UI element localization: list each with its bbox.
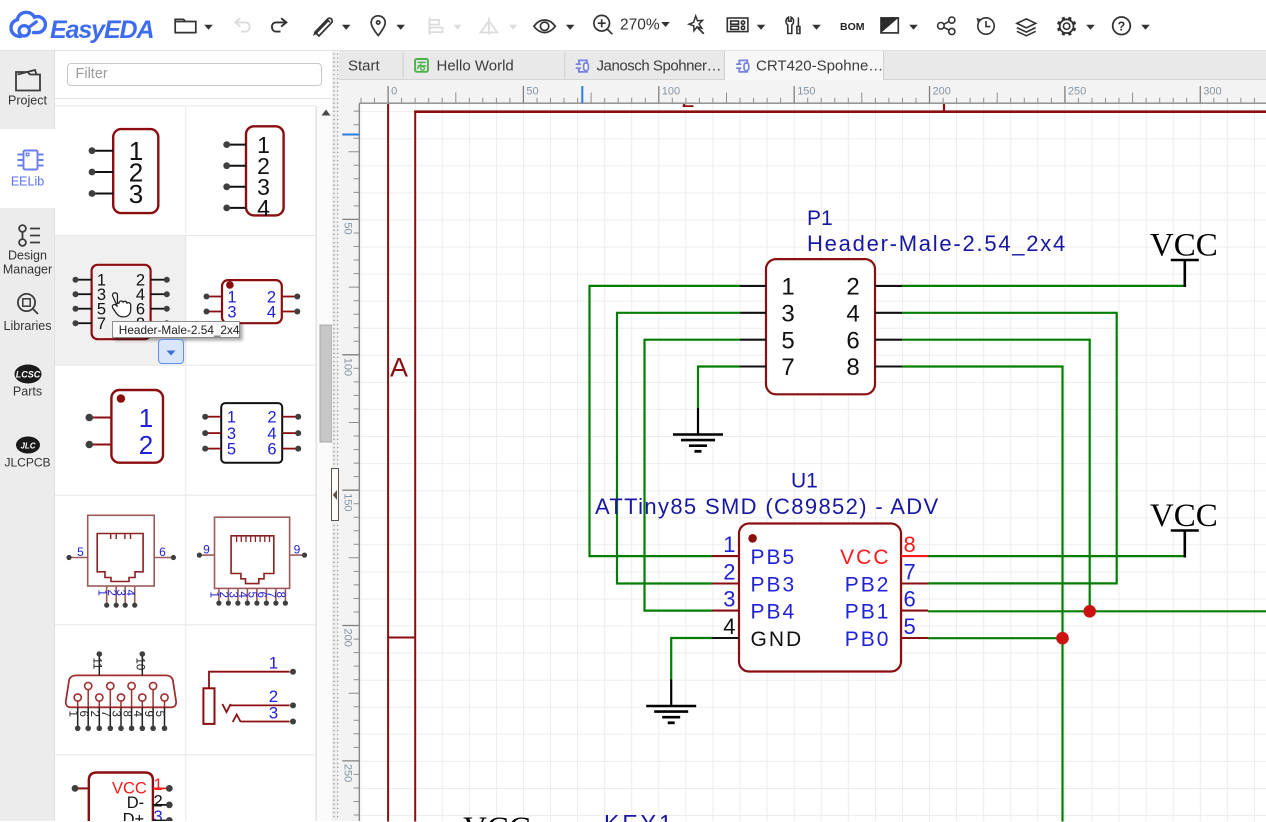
wire net PB5: P1 pin1 to U1 pin1 xyxy=(590,285,741,555)
svg-text:BOM: BOM xyxy=(840,21,865,33)
svg-text:4: 4 xyxy=(257,195,270,221)
svg-text:9: 9 xyxy=(203,543,210,557)
wire U1 pin8 to VCC xyxy=(928,554,1185,556)
U1 pin 3 (PB4) xyxy=(712,609,739,611)
frame column divider tick xyxy=(943,104,945,112)
toolbar redo xyxy=(272,18,287,31)
svg-text:Janosch Spohner…: Janosch Spohner… xyxy=(596,58,721,75)
part symbol: 2x4 header (hovered) xyxy=(73,265,170,339)
toolbar tools button xyxy=(786,17,800,33)
part symbol: USB connector (clipped) xyxy=(72,773,173,822)
panel resize gutter xyxy=(332,51,339,821)
svg-text:250: 250 xyxy=(1068,86,1086,98)
svg-text:7: 7 xyxy=(99,711,111,717)
part symbol: audio jack xyxy=(203,654,296,725)
panel scrollbar xyxy=(316,106,332,821)
svg-text:50: 50 xyxy=(342,222,354,234)
toolbar settings/gear button xyxy=(1058,17,1076,35)
ground GND1 (P1 pin7) xyxy=(673,408,723,451)
svg-text:200: 200 xyxy=(933,86,951,98)
svg-text:270%: 270% xyxy=(620,17,660,34)
P1 pin 4 xyxy=(875,311,902,313)
toolbar undo (disabled) xyxy=(235,18,249,31)
ground GND2 (U1 pin4) xyxy=(646,679,696,722)
panel collapse handle xyxy=(331,468,338,521)
toolbar flip button (disabled) xyxy=(481,18,498,35)
svg-text:2: 2 xyxy=(88,711,100,717)
part symbol: 2-pin header xyxy=(86,390,164,463)
sheet frame inner left border xyxy=(414,110,416,821)
tab Janosch Spohner (sch icon) xyxy=(575,60,588,72)
canvas background xyxy=(360,104,1266,822)
svg-text:50: 50 xyxy=(526,86,538,98)
junction dot net PB0 xyxy=(1056,631,1069,644)
sidebar Project item xyxy=(16,70,40,91)
part symbol: 2x2 header xyxy=(204,280,301,323)
svg-text:4: 4 xyxy=(267,303,276,321)
svg-text:3: 3 xyxy=(269,704,278,723)
U1 pin 7 (PB2) xyxy=(901,582,928,584)
svg-text:LCSC: LCSC xyxy=(16,370,41,380)
connector P1 Header-Male-2.54_2x4 xyxy=(740,207,1067,394)
wire net PB2: P1 pin4 to U1 pin7 xyxy=(902,312,1117,583)
svg-text:6: 6 xyxy=(159,545,166,559)
svg-text:4: 4 xyxy=(131,711,143,718)
sidebar Libraries item xyxy=(18,294,38,314)
ruler background xyxy=(339,80,1266,104)
svg-text:5: 5 xyxy=(77,545,84,559)
toolbar history button xyxy=(978,18,995,34)
EasyEDA logo xyxy=(11,12,154,44)
part dropdown button xyxy=(158,339,184,364)
svg-text:JLC: JLC xyxy=(20,442,35,451)
hovered cell background xyxy=(55,236,186,366)
power symbol VCC2 xyxy=(1150,498,1218,558)
svg-text:JLCPCB: JLCPCB xyxy=(4,456,50,470)
svg-text:1: 1 xyxy=(154,776,163,794)
svg-text:EasyEDA: EasyEDA xyxy=(50,16,154,44)
part symbol: 3-pin header xyxy=(89,129,159,213)
P1 pin 7 xyxy=(740,365,766,367)
wire P1 pin2 to VCC xyxy=(902,284,1185,286)
left sidebar xyxy=(0,51,55,821)
U1 pin 8 (VCC) xyxy=(901,555,928,557)
svg-text:9: 9 xyxy=(294,543,301,557)
toolbar placement/pin button xyxy=(371,16,385,36)
U1 pin 4 (GND) xyxy=(712,636,739,638)
toolbar view/eye button xyxy=(534,20,555,33)
svg-text:CRT420-Spohne…: CRT420-Spohne… xyxy=(756,58,883,75)
svg-text:3: 3 xyxy=(154,808,163,821)
sidebar EELib active item background xyxy=(0,129,55,208)
svg-text:7: 7 xyxy=(97,315,106,333)
svg-text:250: 250 xyxy=(342,764,354,782)
P1 pin 3 xyxy=(740,311,766,313)
sidebar JLCPCB item xyxy=(16,437,40,454)
svg-text:1: 1 xyxy=(139,403,153,433)
svg-text:Hello World: Hello World xyxy=(436,58,513,75)
wire net PB0: U1 pin5 to junction xyxy=(928,637,1063,639)
svg-text:3: 3 xyxy=(129,179,143,209)
svg-text:10: 10 xyxy=(133,658,145,671)
svg-text:150: 150 xyxy=(342,493,354,511)
IC U1 ATTiny85 xyxy=(595,469,940,671)
part symbol: 4-pin header xyxy=(223,126,283,221)
U1 pin 5 (PB0) xyxy=(901,636,928,638)
P1 pin 5 xyxy=(740,338,766,340)
svg-text:6: 6 xyxy=(267,440,276,458)
U1 pin 1 (PB5) xyxy=(712,555,739,557)
svg-text:4: 4 xyxy=(123,590,135,597)
svg-text:150: 150 xyxy=(797,86,815,98)
svg-text:Start: Start xyxy=(348,58,381,75)
svg-text:Parts: Parts xyxy=(13,385,42,399)
toolbar panel-settings button xyxy=(727,18,748,32)
toolbar help button xyxy=(1113,17,1131,35)
wire P1 pin7 to ground xyxy=(698,366,740,408)
svg-text:1: 1 xyxy=(269,654,278,673)
svg-text:1: 1 xyxy=(227,409,236,427)
tooltip Header-Male-2.54_2x4 xyxy=(112,321,241,339)
svg-text:300: 300 xyxy=(1203,86,1221,98)
U1 pin 6 (PB1) xyxy=(901,609,928,611)
ruler baselines xyxy=(359,103,1266,821)
sheet frame inner top border xyxy=(414,110,1266,113)
tab Hello World (green icon) xyxy=(415,59,428,72)
toolbar zoom button xyxy=(594,15,612,34)
sidebar Design Manager item xyxy=(19,225,40,246)
svg-text:1: 1 xyxy=(66,711,78,717)
svg-text:5: 5 xyxy=(227,440,236,458)
document tab bar xyxy=(339,51,1266,80)
svg-text:EELib: EELib xyxy=(11,175,44,189)
parts grid cell borders xyxy=(55,106,316,821)
part symbol: DB9 connector xyxy=(66,651,176,731)
toolbar align button (disabled) xyxy=(430,18,443,35)
svg-text:2: 2 xyxy=(267,409,276,427)
svg-text:2: 2 xyxy=(139,430,153,460)
parts library panel xyxy=(55,51,332,821)
svg-text:0: 0 xyxy=(391,86,397,98)
toolbar share button xyxy=(938,17,955,35)
wire net PB1: P1 pin6 down to junction xyxy=(902,339,1090,611)
toolbar theme button xyxy=(881,18,898,33)
svg-text:11: 11 xyxy=(90,658,102,670)
U1 pin 2 (PB3) xyxy=(712,582,739,584)
top toolbar xyxy=(0,0,1266,51)
ruler cursor indicator (blue) horizontal xyxy=(581,86,583,103)
part symbol: 6-pin header (black outline) xyxy=(202,403,301,463)
P1 pin 8 xyxy=(875,365,902,367)
wire net PB0: P1 pin8 down across to bottom xyxy=(902,366,1063,821)
toolbar wizard/wand button xyxy=(689,16,704,34)
svg-text:Libraries: Libraries xyxy=(4,319,52,333)
filter input xyxy=(67,63,322,86)
svg-text:6: 6 xyxy=(77,711,89,717)
svg-text:200: 200 xyxy=(342,629,354,647)
P1 pin 6 xyxy=(875,338,902,340)
svg-text:100: 100 xyxy=(342,358,354,376)
mouse cursor (hand) xyxy=(112,293,130,317)
svg-text:Manager: Manager xyxy=(3,263,52,277)
ruler ticks xyxy=(354,98,1255,815)
toolbar file/folder button xyxy=(175,19,196,32)
junction dot net PB1 xyxy=(1083,605,1096,618)
ruler cursor indicator (blue) vertical xyxy=(342,134,359,136)
toolbar layers button xyxy=(1017,19,1036,36)
sidebar EELib item (active) xyxy=(18,151,44,170)
sheet frame outer left border xyxy=(387,104,389,822)
toolbar draw/pencil button xyxy=(315,18,333,36)
P1 pin 1 xyxy=(740,284,766,286)
part symbol: RJ45 jack 8P xyxy=(197,517,307,606)
frame row divider A/B xyxy=(388,636,415,638)
wire net PB1: U1 pin6 to right edge xyxy=(928,610,1266,612)
wire net PB4: P1 pin5 to U1 pin3 xyxy=(645,339,741,610)
scrollbar thumb xyxy=(320,325,332,442)
svg-text:?: ? xyxy=(1118,19,1126,33)
svg-text:D+: D+ xyxy=(123,811,145,822)
wire U1 pin4 to ground xyxy=(671,638,713,680)
svg-text:100: 100 xyxy=(662,86,680,98)
svg-text:3: 3 xyxy=(110,711,122,717)
wire net PB3: P1 pin3 to U1 pin2 xyxy=(617,312,740,583)
active tab background xyxy=(724,51,884,80)
svg-text:8: 8 xyxy=(120,711,132,717)
part symbol: RJ45 jack 6P xyxy=(66,515,176,608)
P1 pin 2 xyxy=(875,284,902,286)
svg-text:3: 3 xyxy=(227,303,236,321)
power symbol VCC1 xyxy=(1150,227,1218,287)
svg-text:9: 9 xyxy=(142,711,154,717)
svg-text:5: 5 xyxy=(153,711,165,717)
svg-text:8: 8 xyxy=(274,592,286,598)
svg-text:Design: Design xyxy=(8,249,47,263)
tab CRT420-Spohne (active, sch icon) xyxy=(736,60,749,72)
svg-text:D-: D- xyxy=(127,794,144,812)
sidebar LCSC Parts item xyxy=(15,365,42,384)
svg-text:Project: Project xyxy=(8,94,47,108)
